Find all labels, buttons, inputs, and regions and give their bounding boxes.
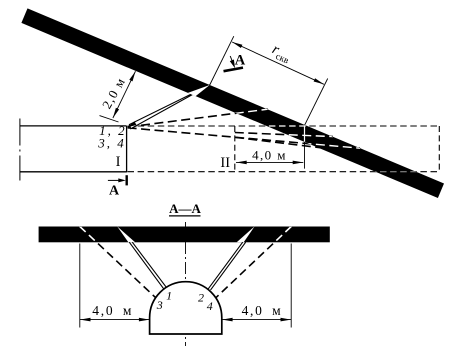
svg-text:3, 4: 3, 4 <box>97 136 126 151</box>
roadway II right edge (dashed) <box>438 126 440 171</box>
borehole from face II (dashed, upper) <box>235 133 333 137</box>
dimension 4,0 m right <box>222 303 291 321</box>
boreholes 1,2 white channel across the seam <box>188 85 210 96</box>
borehole from face II (dashed, lower) <box>235 137 324 148</box>
svg-text:А: А <box>235 53 246 69</box>
boreholes 1,2 (double line from corner to seam top edge) <box>129 85 209 129</box>
svg-text:А—А: А—А <box>169 201 201 216</box>
dimension 2,0 m (perpendicular distance to seam) <box>99 71 136 122</box>
svg-text:I: I <box>116 154 121 170</box>
svg-text:4,0 м: 4,0 м <box>92 303 133 318</box>
svg-text:4,0 м: 4,0 м <box>252 148 287 163</box>
projected roof line (dashed) <box>128 125 440 127</box>
borehole 3 projection (dashed, from corner, rising) <box>128 109 268 127</box>
svg-text:1: 1 <box>166 288 172 302</box>
svg-text:3: 3 <box>156 298 163 312</box>
dimension 4,0 m (face II to seam) <box>236 142 305 169</box>
svg-text:2: 2 <box>198 291 204 305</box>
borehole 1 (double line) <box>129 242 163 289</box>
left extension line <box>79 244 81 328</box>
dimension 4,0 m left <box>80 303 150 321</box>
borehole 2 (double line) <box>208 242 243 289</box>
svg-text:4,0 м: 4,0 м <box>242 303 283 318</box>
seam bar <box>39 227 330 243</box>
tunnel cross-section outline <box>150 282 222 334</box>
svg-text:А: А <box>109 184 120 199</box>
borehole 1 white channel across the seam bar <box>117 226 135 242</box>
roadway I outline <box>20 126 127 172</box>
face II left edge (dashed) <box>234 126 236 172</box>
right extension line <box>290 244 292 328</box>
coal seam band <box>21 8 444 198</box>
vertical centerline <box>185 222 187 346</box>
borehole 2 white channel across the seam bar <box>237 226 255 242</box>
svg-text:4: 4 <box>207 299 213 313</box>
borehole 4 projection (dashed, from corner, falling) <box>128 128 360 148</box>
arrowhead at collar of holes 1,2 <box>127 121 136 127</box>
dimension r_skv along the seam <box>210 36 328 125</box>
dashed lines shown white across the seam <box>128 109 440 172</box>
borehole 3 (dashed) <box>80 227 157 300</box>
borehole 4 (dashed) <box>214 227 291 300</box>
section mark A (lower, at face I) <box>108 175 127 198</box>
section title A-A <box>169 201 201 216</box>
roadway I left break centerline <box>19 119 21 181</box>
projected floor line (dashed) <box>128 171 440 173</box>
svg-text:II: II <box>220 155 230 171</box>
section mark A (upper, at seam) <box>224 53 246 72</box>
dashed holes shown white across the bar <box>80 227 291 300</box>
